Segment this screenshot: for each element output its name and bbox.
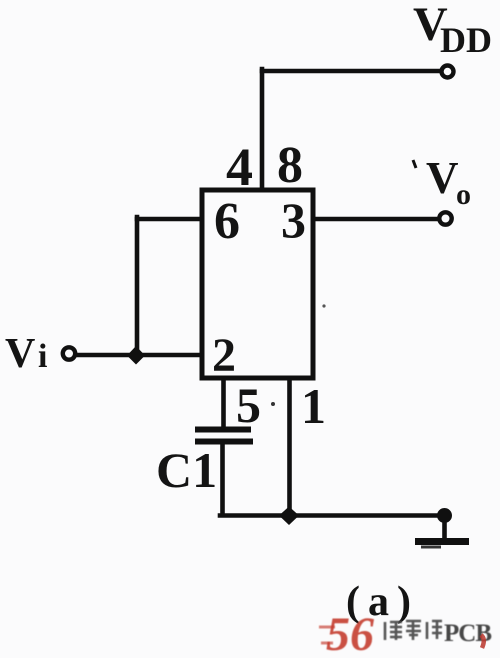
wire pin3 output: [315, 217, 438, 222]
svg-text:C1: C1: [156, 442, 217, 498]
watermark gray text: [385, 621, 442, 640]
svg-text:V: V: [426, 153, 459, 203]
svg-text:DD: DD: [440, 20, 492, 60]
wire capacitor to bottom rail: [220, 443, 225, 515]
wire loop vertical 6-to-2: [135, 217, 140, 355]
svg-text:V: V: [5, 331, 35, 377]
ground: [415, 542, 469, 548]
wire pin6 stub: [137, 217, 201, 222]
terminal VDD: [442, 66, 454, 78]
svg-text:2: 2: [212, 329, 236, 382]
svg-text:4: 4: [226, 137, 253, 197]
svg-text:i: i: [38, 338, 47, 375]
speck: [271, 402, 275, 406]
wire pin5 down: [221, 379, 226, 427]
svg-text:8: 8: [277, 137, 303, 194]
svg-text:56: 56: [326, 608, 374, 658]
capacitor C1 plates: [195, 430, 253, 442]
wire bottom rail: [220, 513, 445, 518]
wire ground drop: [442, 516, 447, 539]
svg-text:3: 3: [281, 192, 306, 248]
junction node ground: [437, 508, 452, 523]
watermark red logo: [319, 608, 374, 658]
wire pin1 down: [287, 379, 292, 515]
terminal Vi: [63, 347, 75, 359]
wire VDD vertical to pins 4/8: [260, 69, 265, 188]
svg-text:6: 6: [214, 193, 240, 250]
IC body U1: [202, 190, 313, 378]
junction node 6-2 tie: [127, 346, 145, 365]
svg-text:5: 5: [236, 377, 261, 433]
svg-text:1: 1: [301, 378, 326, 434]
terminal Vo: [439, 212, 451, 224]
svg-text:o: o: [456, 178, 471, 211]
junction node pin1/bottom rail: [279, 507, 299, 526]
wire Vi input: [77, 353, 201, 358]
wire VDD horizontal: [262, 69, 440, 74]
